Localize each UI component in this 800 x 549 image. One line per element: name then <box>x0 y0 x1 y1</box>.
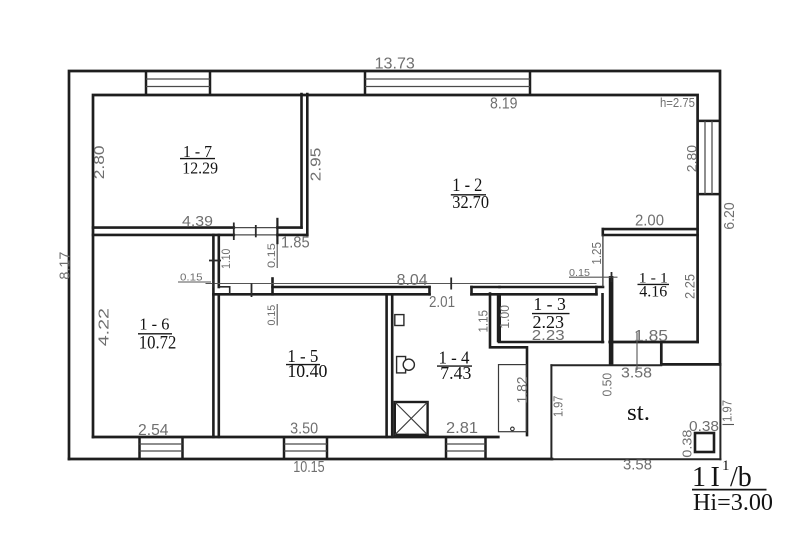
svg-text:0.15: 0.15 <box>266 243 278 268</box>
svg-text:0.15: 0.15 <box>569 267 590 279</box>
svg-text:2.80: 2.80 <box>91 146 108 180</box>
svg-text:/b: /b <box>730 462 752 493</box>
svg-text:2.01: 2.01 <box>429 294 455 311</box>
svg-text:2.80: 2.80 <box>684 145 700 172</box>
svg-text:10.15: 10.15 <box>293 459 325 476</box>
svg-text:1.97: 1.97 <box>720 400 735 422</box>
svg-text:0.50: 0.50 <box>601 373 615 397</box>
svg-text:1.85: 1.85 <box>634 328 668 345</box>
svg-text:1: 1 <box>692 462 706 493</box>
svg-text:1: 1 <box>722 458 730 474</box>
svg-text:3.58: 3.58 <box>623 458 652 474</box>
svg-text:1 - 3: 1 - 3 <box>533 294 566 314</box>
svg-text:2.81: 2.81 <box>446 420 478 437</box>
svg-text:3.58: 3.58 <box>621 366 652 382</box>
svg-text:4.39: 4.39 <box>182 214 213 230</box>
svg-text:8.19: 8.19 <box>490 95 518 112</box>
svg-text:8.17: 8.17 <box>57 252 74 280</box>
svg-text:0.15: 0.15 <box>180 271 203 283</box>
svg-text:st.: st. <box>627 400 650 426</box>
svg-text:I: I <box>711 462 720 493</box>
svg-text:6.20: 6.20 <box>722 202 738 229</box>
svg-text:2.95: 2.95 <box>307 148 324 182</box>
svg-text:Hi=3.00: Hi=3.00 <box>693 490 773 516</box>
svg-text:4.22: 4.22 <box>95 308 112 346</box>
svg-text:0.15: 0.15 <box>266 305 278 326</box>
svg-text:2.23: 2.23 <box>533 312 565 332</box>
svg-text:3.50: 3.50 <box>290 421 318 438</box>
svg-text:2.00: 2.00 <box>635 213 664 230</box>
svg-text:1.97: 1.97 <box>551 396 566 417</box>
svg-text:1.10: 1.10 <box>221 249 233 269</box>
svg-text:1.85: 1.85 <box>281 234 310 251</box>
svg-text:1.82: 1.82 <box>515 377 531 404</box>
svg-text:2.54: 2.54 <box>138 422 169 439</box>
svg-text:2.25: 2.25 <box>682 274 698 299</box>
svg-text:12.29: 12.29 <box>182 159 218 178</box>
svg-text:10.72: 10.72 <box>139 334 177 354</box>
svg-text:1.25: 1.25 <box>590 242 604 265</box>
svg-text:h=2.75: h=2.75 <box>660 96 695 110</box>
svg-text:1.00: 1.00 <box>497 305 512 329</box>
svg-text:8.04: 8.04 <box>397 272 428 289</box>
svg-text:13.73: 13.73 <box>375 56 415 73</box>
svg-text:1.15: 1.15 <box>477 310 491 333</box>
svg-text:4.16: 4.16 <box>639 283 667 300</box>
svg-text:0.38: 0.38 <box>679 430 694 458</box>
svg-text:1 - 6: 1 - 6 <box>139 314 169 333</box>
